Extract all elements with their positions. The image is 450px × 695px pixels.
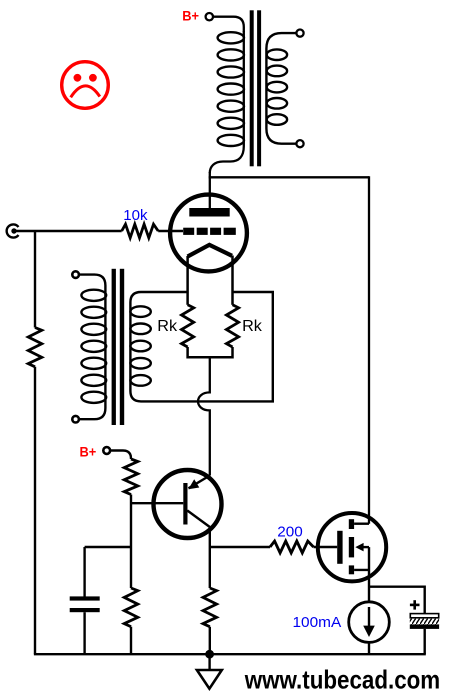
ground junction dot xyxy=(205,650,214,659)
MOSFET body arrow xyxy=(362,546,369,548)
svg-text:200: 200 xyxy=(277,523,303,540)
wire base xyxy=(131,502,183,504)
transformer T1 secondary coil loops xyxy=(267,49,287,124)
resistor bias lower xyxy=(124,588,138,627)
interstage T2 primary terminal (top) xyxy=(72,271,79,278)
ground symbol xyxy=(197,670,222,689)
wire source node to output cap xyxy=(369,587,425,614)
svg-text:100mA: 100mA xyxy=(293,614,342,631)
capacitor C2 hatched plate xyxy=(410,619,439,625)
input jack xyxy=(7,224,19,237)
interstage T2 core xyxy=(112,269,116,425)
resistor collector load xyxy=(203,588,217,627)
svg-text:Rk: Rk xyxy=(242,318,263,335)
interstage T2 secondary coil loops xyxy=(130,306,150,385)
transformer T1 secondary terminal (bottom) xyxy=(296,140,303,147)
plus sign xyxy=(410,604,420,607)
B+ terminal (top) xyxy=(206,13,213,20)
transistor Q1 collector xyxy=(187,511,210,528)
svg-text:B+: B+ xyxy=(80,444,97,459)
capacitor C1 plates xyxy=(70,596,100,600)
wire cathode tap down with hop over secondary return xyxy=(198,357,210,475)
ground bus xyxy=(34,653,426,655)
resistor Rk left xyxy=(182,305,194,347)
transformer T1 primary spine xyxy=(210,31,244,173)
transformer T1 core xyxy=(250,10,254,166)
wire resistor to grid xyxy=(158,230,183,232)
wire cap lead down xyxy=(83,547,85,597)
triode V1 envelope xyxy=(170,195,247,272)
transformer T1 secondary terminal (top) xyxy=(296,29,303,36)
resistor base bias xyxy=(124,459,138,495)
MOSFET source link xyxy=(354,547,369,602)
wire right vertical (to MOSFET drain) xyxy=(368,176,370,524)
left vertical wire xyxy=(34,230,36,328)
resistor (input load) xyxy=(28,328,42,367)
ground stub xyxy=(208,654,210,670)
wire top rail to right vertical xyxy=(209,176,369,178)
wire resistor to ground bus xyxy=(34,367,36,654)
triode plate xyxy=(189,208,229,217)
interstage T2 primary terminal (bottom) xyxy=(72,416,79,423)
current source I1 xyxy=(349,602,390,643)
interstage T2 secondary loop (cathode box) xyxy=(130,292,272,401)
wire plate node to B+ rail xyxy=(209,172,211,208)
svg-text:Rk: Rk xyxy=(157,318,178,335)
transformer T1 primary coil loops xyxy=(218,32,244,146)
wire Rk bottoms joined xyxy=(188,347,233,357)
wire B+ to base resistor xyxy=(110,451,131,460)
wire to ground bus xyxy=(209,627,211,655)
MOSFET drain link xyxy=(354,523,369,525)
wire to ground bus xyxy=(130,627,132,655)
wire bias node to cap xyxy=(85,546,131,548)
transistor Q1 emitter (arrow in, PNP) xyxy=(189,476,210,489)
interstage T2 primary spine xyxy=(79,275,106,420)
MOSFET channel segments xyxy=(349,519,354,529)
svg-text:www.tubecad.com: www.tubecad.com xyxy=(244,665,440,695)
capacitor C2 (polarized) top plate xyxy=(410,614,438,618)
triode cathode xyxy=(188,245,232,257)
resistor 10k xyxy=(122,224,159,238)
wire to gate xyxy=(314,546,338,548)
cathode lead right xyxy=(231,256,234,305)
wire collector to gate resistor xyxy=(210,546,270,548)
MOSFET gate bar xyxy=(337,531,342,564)
svg-text:B+: B+ xyxy=(182,9,199,24)
wire cap to bus xyxy=(424,629,426,654)
interstage T2 primary coil loops xyxy=(81,290,106,403)
transistor Q1 envelope xyxy=(154,470,222,538)
B+ terminal (driver) xyxy=(103,447,110,454)
resistor Rk right xyxy=(226,305,238,347)
wire bias node down xyxy=(130,495,132,589)
wire cap to ground bus xyxy=(83,612,85,654)
wire collector down xyxy=(209,527,211,588)
wire input to grid resistor xyxy=(15,230,122,232)
wire current source to bus xyxy=(368,642,370,654)
triode grid dashes xyxy=(183,228,236,235)
cathode lead left xyxy=(186,256,189,305)
sad face icon xyxy=(62,62,109,109)
transistor Q1 base bar xyxy=(183,483,187,525)
MOSFET Q2 envelope xyxy=(318,513,386,581)
wire B+ to transformer primary xyxy=(213,17,244,32)
transformer T1 secondary spine xyxy=(266,33,296,144)
resistor 200 xyxy=(270,541,314,553)
